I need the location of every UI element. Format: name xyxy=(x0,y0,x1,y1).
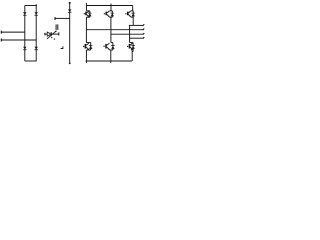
diode D3 xyxy=(23,47,26,50)
leg3 top drop wire xyxy=(132,6,134,11)
IGBT Q1 (top leg1) xyxy=(84,11,92,17)
brake terminal wire xyxy=(55,17,70,19)
capacitor C1 plate B xyxy=(57,24,59,30)
DC link top dot xyxy=(69,2,71,4)
AC input line L2 xyxy=(1,39,36,41)
IGBT Q3 (top leg2) xyxy=(104,11,114,17)
DC link wire xyxy=(69,2,71,64)
leg3 bottom drop wire xyxy=(131,52,134,62)
IGBT Q5 (top leg3) xyxy=(125,11,135,17)
capacitor C1 plate A xyxy=(55,24,57,30)
leg1 bottom drop wire xyxy=(85,50,87,63)
diode D2 xyxy=(35,12,38,15)
IGBT Q2 (bottom leg1) xyxy=(83,43,93,50)
IGBT Q4 (bottom leg2) xyxy=(103,43,114,50)
leg2 top drop wire xyxy=(110,4,112,11)
phase output V xyxy=(86,29,144,31)
leg2 mid wire xyxy=(110,17,112,42)
inverter bottom bus xyxy=(86,60,132,62)
leg2 bottom drop wire xyxy=(110,50,112,63)
terminal tick L1 xyxy=(0,31,2,34)
leg1 mid wire xyxy=(85,17,87,42)
phase output N xyxy=(130,37,145,39)
chopper terminal tick xyxy=(44,33,46,35)
chopper lead wire xyxy=(45,33,47,35)
label specks xyxy=(49,35,55,39)
rectifier top bus xyxy=(25,5,37,7)
rectifier leg 1 wire xyxy=(24,6,26,62)
leg3 jog wire xyxy=(129,25,131,42)
label hook xyxy=(61,46,63,48)
leg3 mid wire xyxy=(132,17,134,25)
chopper arrow xyxy=(47,31,57,39)
rectifier leg 2 wire xyxy=(35,4,37,61)
inverter top bus xyxy=(86,5,132,7)
brake terminal tick xyxy=(54,17,56,20)
AC input line L1 xyxy=(1,31,25,33)
DC link diode D5 xyxy=(68,9,71,12)
terminal tick L2 xyxy=(0,39,2,42)
diode D1 xyxy=(23,12,26,15)
rectifier bottom bus xyxy=(25,60,37,62)
IGBT Q6 (bottom leg3) xyxy=(127,43,135,52)
diode D4 xyxy=(35,47,38,50)
bottom bus dot xyxy=(86,60,88,62)
phase output U xyxy=(129,24,144,26)
thyristor Q7 xyxy=(47,32,59,36)
DC link bottom dot xyxy=(69,63,71,65)
leg1 top drop wire xyxy=(85,3,87,11)
phase output W xyxy=(111,33,144,35)
